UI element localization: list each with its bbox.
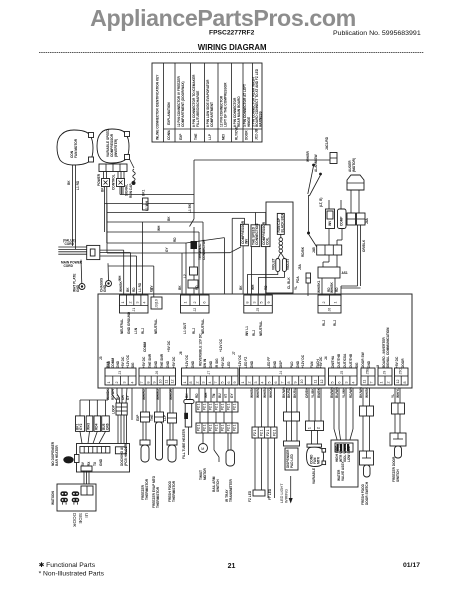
svg-text:4: 4 <box>143 302 147 304</box>
svg-text:GND: GND <box>76 284 80 292</box>
svg-text:F2 1: F2 1 <box>253 429 257 436</box>
svg-text:HARNESS: HARNESS <box>259 111 263 127</box>
svg-text:+12V DC: +12V DC <box>301 354 305 368</box>
svg-text:2: 2 <box>387 382 391 384</box>
svg-text:* Non-Illustrated Parts: * Non-Illustrated Parts <box>39 571 104 578</box>
svg-text:SWITCH: SWITCH <box>396 469 400 482</box>
svg-text:2: 2 <box>115 382 119 384</box>
svg-text:WH: WH <box>118 275 122 281</box>
svg-text:RD4: RD4 <box>94 423 98 430</box>
svg-text:WH/RD: WH/RD <box>256 387 260 398</box>
svg-text:BLACK BOX: BLACK BOX <box>281 213 285 233</box>
svg-text:BK/RD: BK/RD <box>287 387 291 398</box>
svg-text:J3: J3 <box>99 356 103 360</box>
svg-text:GND: GND <box>154 360 158 368</box>
svg-text:LED LIGHT: LED LIGHT <box>280 483 284 503</box>
svg-text:(INVERTER): (INVERTER) <box>114 139 118 157</box>
svg-text:F2 1: F2 1 <box>273 429 277 436</box>
svg-text:6: 6 <box>337 382 341 384</box>
svg-text:+12V DC: +12V DC <box>126 354 130 368</box>
svg-text:INLINE CONNECTOR IDENTIFICATIO: INLINE CONNECTOR IDENTIFICATION KEY <box>156 74 160 140</box>
svg-text:GND: GND <box>116 360 120 368</box>
svg-text:BK: BK <box>126 287 130 292</box>
svg-text:LLP: LLP <box>163 414 167 421</box>
svg-text:BK6: BK6 <box>106 361 110 368</box>
svg-text:4: 4 <box>261 382 265 384</box>
svg-text:+5V DC: +5V DC <box>121 356 125 368</box>
svg-text:MCI: MCI <box>222 134 226 140</box>
svg-text:EXP: EXP <box>136 414 140 421</box>
svg-text:BU: BU <box>116 395 120 400</box>
svg-text:BK: BK <box>101 187 105 192</box>
svg-text:3: 3 <box>345 382 349 384</box>
svg-text:CONNECTION: CONNECTION <box>255 223 259 245</box>
svg-text:WATSON: WATSON <box>51 491 55 505</box>
svg-text:7: 7 <box>214 382 218 384</box>
svg-text:F2 1: F2 1 <box>215 424 219 431</box>
svg-text:LED: LED <box>227 361 231 368</box>
svg-text:RD: RD <box>195 285 199 290</box>
svg-text:YL/BK: YL/BK <box>311 388 315 398</box>
svg-text:1: 1 <box>183 382 187 384</box>
svg-text:INV: INV <box>245 238 249 244</box>
svg-text:1: 1 <box>308 427 312 429</box>
svg-text:L1 BK: L1 BK <box>188 203 192 213</box>
svg-text:WH: WH <box>204 392 208 398</box>
svg-text:BK: BK <box>178 285 182 290</box>
svg-text:UI: UI <box>376 365 380 368</box>
svg-text:MOTOR: MOTOR <box>203 467 207 480</box>
svg-text:SIG: SIG <box>355 362 359 368</box>
svg-text:L1 RD: L1 RD <box>138 282 142 292</box>
svg-text:+12V DC: +12V DC <box>238 354 242 368</box>
svg-text:2: 2 <box>317 427 321 429</box>
svg-text:RLJ: RLJ <box>322 320 326 326</box>
svg-text:Publication No. 5995683991: Publication No. 5995683991 <box>333 30 421 37</box>
svg-text:COMM: COMM <box>111 358 115 368</box>
svg-text:J6: J6 <box>179 351 183 355</box>
svg-text:F2 1: F2 1 <box>197 403 201 410</box>
svg-text:J4: J4 <box>324 356 328 360</box>
svg-text:FF LED: FF LED <box>268 488 272 500</box>
svg-text:F2 1: F2 1 <box>215 403 219 410</box>
svg-text:7: 7 <box>280 382 284 384</box>
svg-text:WH/OR: WH/OR <box>269 386 273 398</box>
svg-text:BN/BK: BN/BK <box>317 387 321 398</box>
svg-text:UI: UI <box>84 513 89 518</box>
svg-text:OR/BLK: OR/BLK <box>362 239 366 252</box>
svg-text:10: 10 <box>159 380 163 384</box>
svg-text:J7: J7 <box>232 351 236 355</box>
svg-text:WH: WH <box>157 225 161 231</box>
svg-text:9: 9 <box>233 382 237 384</box>
svg-text:YL: YL <box>391 394 395 398</box>
svg-text:REVERSIBLE 12V DC: REVERSIBLE 12V DC <box>199 333 203 366</box>
svg-text:J6: J6 <box>155 371 159 375</box>
svg-text:LEFT OF THE COMPRESSOR: LEFT OF THE COMPRESSOR <box>224 82 228 127</box>
svg-text:1: 1 <box>183 302 187 304</box>
svg-text:✱ Functional Parts: ✱ Functional Parts <box>39 562 95 569</box>
svg-text:OR: OR <box>121 395 125 400</box>
svg-text:WH/BK: WH/BK <box>365 387 369 398</box>
svg-text:LED FF: LED FF <box>267 357 271 368</box>
svg-text:WH/BU: WH/BU <box>263 387 267 398</box>
svg-text:RLJ: RLJ <box>252 330 256 336</box>
svg-text:8: 8 <box>189 382 193 384</box>
svg-text:J5C: J5C <box>399 368 403 375</box>
svg-text:COMPARTMENT (DOOR/WAX): COMPARTMENT (DOOR/WAX) <box>181 81 185 127</box>
svg-text:GND GROUND: GND GROUND <box>127 311 131 334</box>
svg-text:+5V DC: +5V DC <box>142 356 146 368</box>
svg-text:ON/THA: ON/THA <box>331 355 335 368</box>
svg-text:VT: VT <box>224 394 228 398</box>
svg-text:OUT/THB: OUT/THB <box>337 353 341 368</box>
svg-text:F2 1: F2 1 <box>209 403 213 410</box>
svg-text:F2 1: F2 1 <box>221 424 225 431</box>
svg-text:4: 4 <box>208 382 212 384</box>
svg-text:PAD: PAD <box>290 361 294 368</box>
svg-text:YL/WH: YL/WH <box>342 387 346 398</box>
svg-text:BU/WH: BU/WH <box>335 387 339 398</box>
svg-text:8: 8 <box>287 382 291 384</box>
svg-text:5: 5 <box>260 302 264 304</box>
svg-text:EXP: EXP <box>179 133 183 140</box>
svg-text:6: 6 <box>274 382 278 384</box>
svg-text:F2 1: F2 1 <box>233 424 237 431</box>
svg-text:RLY/CVE: RLY/CVE <box>235 126 239 140</box>
svg-text:COMM: COMM <box>143 342 147 352</box>
svg-text:3: 3 <box>254 382 258 384</box>
svg-text:THERMISTOR: THERMISTOR <box>145 478 149 500</box>
svg-text:OUT/THB: OUT/THB <box>349 353 353 368</box>
svg-text:L1N: L1N <box>134 327 138 334</box>
svg-text:J3|10: J3|10 <box>155 299 159 308</box>
svg-text:COMPARTMENT: COMPARTMENT <box>210 102 214 127</box>
svg-text:F2 1: F2 1 <box>260 429 264 436</box>
svg-text:WH/YL: WH/YL <box>396 388 400 398</box>
svg-text:J4C1/RD: J4C1/RD <box>325 136 329 150</box>
svg-text:WH/RD: WH/RD <box>142 389 146 400</box>
svg-text:2: 2 <box>195 382 199 384</box>
svg-text:POWER: POWER <box>97 173 101 186</box>
svg-text:J6: J6 <box>328 308 332 312</box>
svg-text:FZ LED: FZ LED <box>248 490 252 502</box>
svg-text:3: 3 <box>123 382 127 384</box>
svg-text:NEUTRAL: NEUTRAL <box>120 319 124 334</box>
svg-text:+5V DC: +5V DC <box>167 340 171 352</box>
svg-text:TRANSMITTER: TRANSMITTER <box>229 478 233 502</box>
svg-text:THE SNR: THE SNR <box>160 353 164 368</box>
svg-text:GND: GND <box>191 360 195 368</box>
svg-text:IR SIG: IR SIG <box>215 358 219 368</box>
svg-text:+5V DC: +5V DC <box>172 356 176 368</box>
svg-text:J5A: J5A <box>298 263 302 270</box>
svg-text:RD/WH: RD/WH <box>349 387 353 398</box>
svg-text:(PCB HOLDER): (PCB HOLDER) <box>124 443 128 466</box>
svg-text:WH/BU: WH/BU <box>156 389 160 400</box>
svg-text:COIL: COIL <box>266 237 270 245</box>
svg-text:L1 RD: L1 RD <box>76 180 80 190</box>
svg-text:L1 WH: L1 WH <box>145 200 149 211</box>
svg-text:EXPLANATION: EXPLANATION <box>167 102 171 125</box>
svg-text:F2 1: F2 1 <box>227 424 231 431</box>
svg-text:F2 1: F2 1 <box>197 424 201 431</box>
svg-text:BAR HEATER: BAR HEATER <box>55 445 59 466</box>
svg-text:+12V DC: +12V DC <box>219 338 223 352</box>
svg-text:CL BLK: CL BLK <box>287 277 291 289</box>
svg-text:4: 4 <box>352 382 356 384</box>
svg-text:FILL TUBE HEATER: FILL TUBE HEATER <box>182 428 186 459</box>
svg-text:TN: TN <box>212 393 216 398</box>
svg-text:OR6: OR6 <box>106 423 110 430</box>
svg-text:J2: J2 <box>193 308 197 312</box>
svg-text:RD: RD <box>264 285 268 290</box>
svg-text:LLP: LLP <box>208 133 212 140</box>
svg-text:SIG: SIG <box>131 362 135 368</box>
svg-text:GND: GND <box>103 284 107 292</box>
svg-text:LOW SIDE: LOW SIDE <box>347 446 351 462</box>
svg-text:J4: J4 <box>279 371 283 375</box>
svg-text:RD: RD <box>195 393 199 398</box>
svg-text:6: 6 <box>227 382 231 384</box>
svg-text:OR/BK: OR/BK <box>305 387 309 398</box>
svg-text:THE: THE <box>150 415 154 421</box>
svg-text:J5: J5 <box>256 308 260 312</box>
svg-text:9: 9 <box>267 302 271 304</box>
svg-text:1: 1 <box>241 382 245 384</box>
svg-text:AppliancePartsPros.com: AppliancePartsPros.com <box>90 5 356 31</box>
svg-text:GND: GND <box>296 360 300 368</box>
svg-text:5: 5 <box>267 382 271 384</box>
svg-text:JC2-JB: JC2-JB <box>255 128 259 140</box>
svg-text:BK1: BK1 <box>142 189 146 196</box>
svg-text:NEUTRAL: NEUTRAL <box>201 319 205 334</box>
svg-text:J5: J5 <box>340 371 344 375</box>
svg-text:FPSC2277RF2: FPSC2277RF2 <box>209 30 255 37</box>
svg-text:3: 3 <box>253 302 257 304</box>
svg-text:BK: BK <box>167 216 171 221</box>
svg-text:TACH: TACH <box>316 359 320 368</box>
svg-text:1: 1 <box>121 302 125 304</box>
svg-text:OUT/CSA: OUT/CSA <box>343 353 347 368</box>
svg-text:RUN CAP: RUN CAP <box>129 183 133 198</box>
svg-text:RD/WH: RD/WH <box>111 389 115 400</box>
svg-text:WH/BR: WH/BR <box>306 151 310 162</box>
svg-text:FAN MOTOR: FAN MOTOR <box>74 138 78 158</box>
svg-text:PDA: PDA <box>296 276 300 283</box>
svg-text:BK/WH: BK/WH <box>282 387 286 398</box>
svg-text:RLJ: RLJ <box>141 328 145 334</box>
svg-text:2: 2 <box>128 302 132 304</box>
svg-text:SWITCH: SWITCH <box>216 479 220 492</box>
svg-text:REAR MAIN BOARD: REAR MAIN BOARD <box>237 96 241 127</box>
svg-text:INV L1: INV L1 <box>245 326 249 336</box>
svg-text:F2 1: F2 1 <box>209 424 213 431</box>
svg-text:21: 21 <box>228 563 236 570</box>
svg-text:BK: BK <box>67 180 71 185</box>
svg-text:M: M <box>201 447 204 451</box>
svg-text:2: 2 <box>248 382 252 384</box>
svg-text:GY: GY <box>230 393 234 398</box>
svg-text:4: 4 <box>130 382 134 384</box>
svg-text:3: 3 <box>202 382 206 384</box>
svg-text:LOOP: LOOP <box>112 404 116 414</box>
svg-text:1: 1 <box>333 302 337 304</box>
svg-text:GND: GND <box>250 360 254 368</box>
svg-text:RD: RD <box>132 287 136 292</box>
svg-text:J3: J3 <box>118 371 122 375</box>
svg-text:F2 1: F2 1 <box>227 403 231 410</box>
svg-text:THERMISTOR: THERMISTOR <box>156 486 160 508</box>
svg-text:WIRING: WIRING <box>285 489 289 503</box>
svg-text:J1: J1 <box>132 308 136 312</box>
svg-text:1: 1 <box>107 382 111 384</box>
svg-text:GY2: GY2 <box>79 423 83 430</box>
svg-text:(MOTOR): (MOTOR) <box>352 158 356 172</box>
svg-text:WH/BK: WH/BK <box>106 389 110 400</box>
svg-text:3: 3 <box>135 302 139 304</box>
svg-text:RD: RD <box>327 287 331 292</box>
svg-text:DISP: DISP <box>279 360 283 368</box>
svg-text:+12V DC: +12V DC <box>185 354 189 368</box>
svg-text:RD: RD <box>335 287 339 292</box>
svg-text:GY: GY <box>150 285 154 290</box>
svg-text:FAN: FAN <box>310 361 314 368</box>
svg-text:2: 2 <box>193 302 197 304</box>
svg-text:L1 OUT: L1 OUT <box>183 323 187 334</box>
svg-text:+5V DC: +5V DC <box>395 356 399 368</box>
svg-text:2: 2 <box>322 302 326 304</box>
svg-text:8: 8 <box>403 382 407 384</box>
svg-text:GND: GND <box>273 360 277 368</box>
svg-text:FILL/TUBE/DISCHARGE: FILL/TUBE/DISCHARGE <box>196 91 200 127</box>
svg-text:BK/WH: BK/WH <box>359 387 363 398</box>
svg-text:CORD: CORD <box>65 242 75 246</box>
svg-text:J4A: J4A <box>365 217 369 224</box>
svg-text:5: 5 <box>330 382 334 384</box>
svg-text:CORD: CORD <box>64 264 74 268</box>
svg-text:ALARM SW: ALARM SW <box>314 154 318 172</box>
svg-text:NEUTRAL: NEUTRAL <box>154 319 158 334</box>
svg-text:VIOLET: VIOLET <box>272 258 276 270</box>
svg-text:RLJ: RLJ <box>192 328 196 334</box>
svg-text:THE SNR: THE SNR <box>148 353 152 368</box>
svg-text:COMP: COMP <box>340 216 344 226</box>
svg-text:BK: BK <box>185 393 189 398</box>
svg-text:WH3: WH3 <box>87 423 91 430</box>
svg-text:F2 1: F2 1 <box>266 429 270 436</box>
svg-text:CONTROL: CONTROL <box>112 174 116 190</box>
svg-text:GND: GND <box>367 360 371 368</box>
svg-text:SIDE: SIDE <box>78 513 83 524</box>
svg-text:L2: L2 <box>183 274 187 278</box>
svg-text:WH/BK: WH/BK <box>250 387 254 398</box>
svg-text:DOOR SW: DOOR SW <box>361 352 365 368</box>
svg-text:WH/BK1: WH/BK1 <box>317 280 321 293</box>
svg-text:11: 11 <box>313 380 317 384</box>
svg-text:AS1: AS1 <box>342 271 348 275</box>
svg-text:BU: BU <box>218 393 222 398</box>
svg-text:F2 1: F2 1 <box>203 424 207 431</box>
svg-text:RD/BK: RD/BK <box>301 246 305 257</box>
svg-text:WH/OR: WH/OR <box>169 388 173 400</box>
svg-text:BK/BU: BK/BU <box>293 387 297 398</box>
svg-text:1: 1 <box>380 382 384 384</box>
svg-text:(LT, B): (LT, B) <box>319 198 323 208</box>
svg-text:8: 8 <box>246 302 250 304</box>
svg-text:F2 1: F2 1 <box>221 403 225 410</box>
svg-text:01/17: 01/17 <box>403 562 420 569</box>
svg-text:9: 9 <box>294 382 298 384</box>
svg-text:SW IN: SW IN <box>203 358 207 368</box>
svg-text:J4B: J4B <box>312 246 316 253</box>
svg-text:SIGNAL COMMUNICATION: SIGNAL COMMUNICATION <box>386 327 390 368</box>
svg-text:12: 12 <box>171 380 175 384</box>
svg-text:GND: GND <box>99 458 103 466</box>
svg-text:7: 7 <box>140 382 144 384</box>
svg-text:+5V DC: +5V DC <box>221 356 225 368</box>
svg-text:DOOR SWITCH: DOOR SWITCH <box>365 481 369 505</box>
svg-text:VIOLET: VIOLET <box>286 258 290 270</box>
svg-text:GY: GY <box>165 247 169 252</box>
svg-text:BK: BK <box>239 285 243 290</box>
svg-text:J5B: J5B <box>366 368 370 375</box>
svg-text:12: 12 <box>320 380 324 384</box>
svg-text:WH/BK: WH/BK <box>119 281 123 292</box>
svg-text:INV: INV <box>328 220 332 226</box>
svg-text:11: 11 <box>165 380 169 384</box>
svg-text:MTR: MTR <box>317 456 321 464</box>
svg-text:DOOR: DOOR <box>245 130 249 140</box>
svg-text:THERMISTOR: THERMISTOR <box>172 480 176 502</box>
svg-text:LED FZ: LED FZ <box>244 357 248 368</box>
svg-text:J7: J7 <box>207 371 211 375</box>
svg-text:10: 10 <box>300 380 304 384</box>
svg-text:YL: YL <box>294 286 298 290</box>
svg-text:8: 8 <box>146 382 150 384</box>
svg-text:WIRING DIAGRAM: WIRING DIAGRAM <box>198 43 267 52</box>
svg-text:RLJ: RLJ <box>333 320 337 326</box>
svg-text:HINGE: HINGE <box>247 117 251 127</box>
svg-text:BN/WH: BN/WH <box>330 387 334 398</box>
svg-text:6: 6 <box>202 302 206 304</box>
svg-text:VALVE ASSY: VALVE ASSY <box>341 461 345 481</box>
svg-text:CONN.: CONN. <box>167 130 171 140</box>
svg-text:DOOR: DOOR <box>401 358 405 368</box>
svg-text:7: 7 <box>370 382 374 384</box>
svg-text:GND: GND <box>166 360 170 368</box>
svg-text:F2 1: F2 1 <box>233 403 237 410</box>
svg-text:12: 12 <box>396 380 400 384</box>
svg-text:J9: J9 <box>383 371 387 375</box>
svg-text:WH: WH <box>251 284 255 290</box>
svg-text:DOOR: DOOR <box>72 513 77 527</box>
svg-text:F2 1: F2 1 <box>203 403 207 410</box>
svg-text:11: 11 <box>363 380 367 384</box>
svg-text:THE: THE <box>194 134 198 140</box>
svg-text:GND: GND <box>209 360 213 368</box>
svg-text:PAD LED: PAD LED <box>290 454 294 468</box>
svg-text:RD: RD <box>173 237 177 242</box>
svg-text:9: 9 <box>152 382 156 384</box>
svg-text:VARIABLE: VARIABLE <box>312 468 316 484</box>
svg-text:5: 5 <box>221 382 225 384</box>
svg-text:NEUTRAL: NEUTRAL <box>259 321 263 336</box>
svg-text:CONNECTOR: CONNECTOR <box>202 239 206 260</box>
